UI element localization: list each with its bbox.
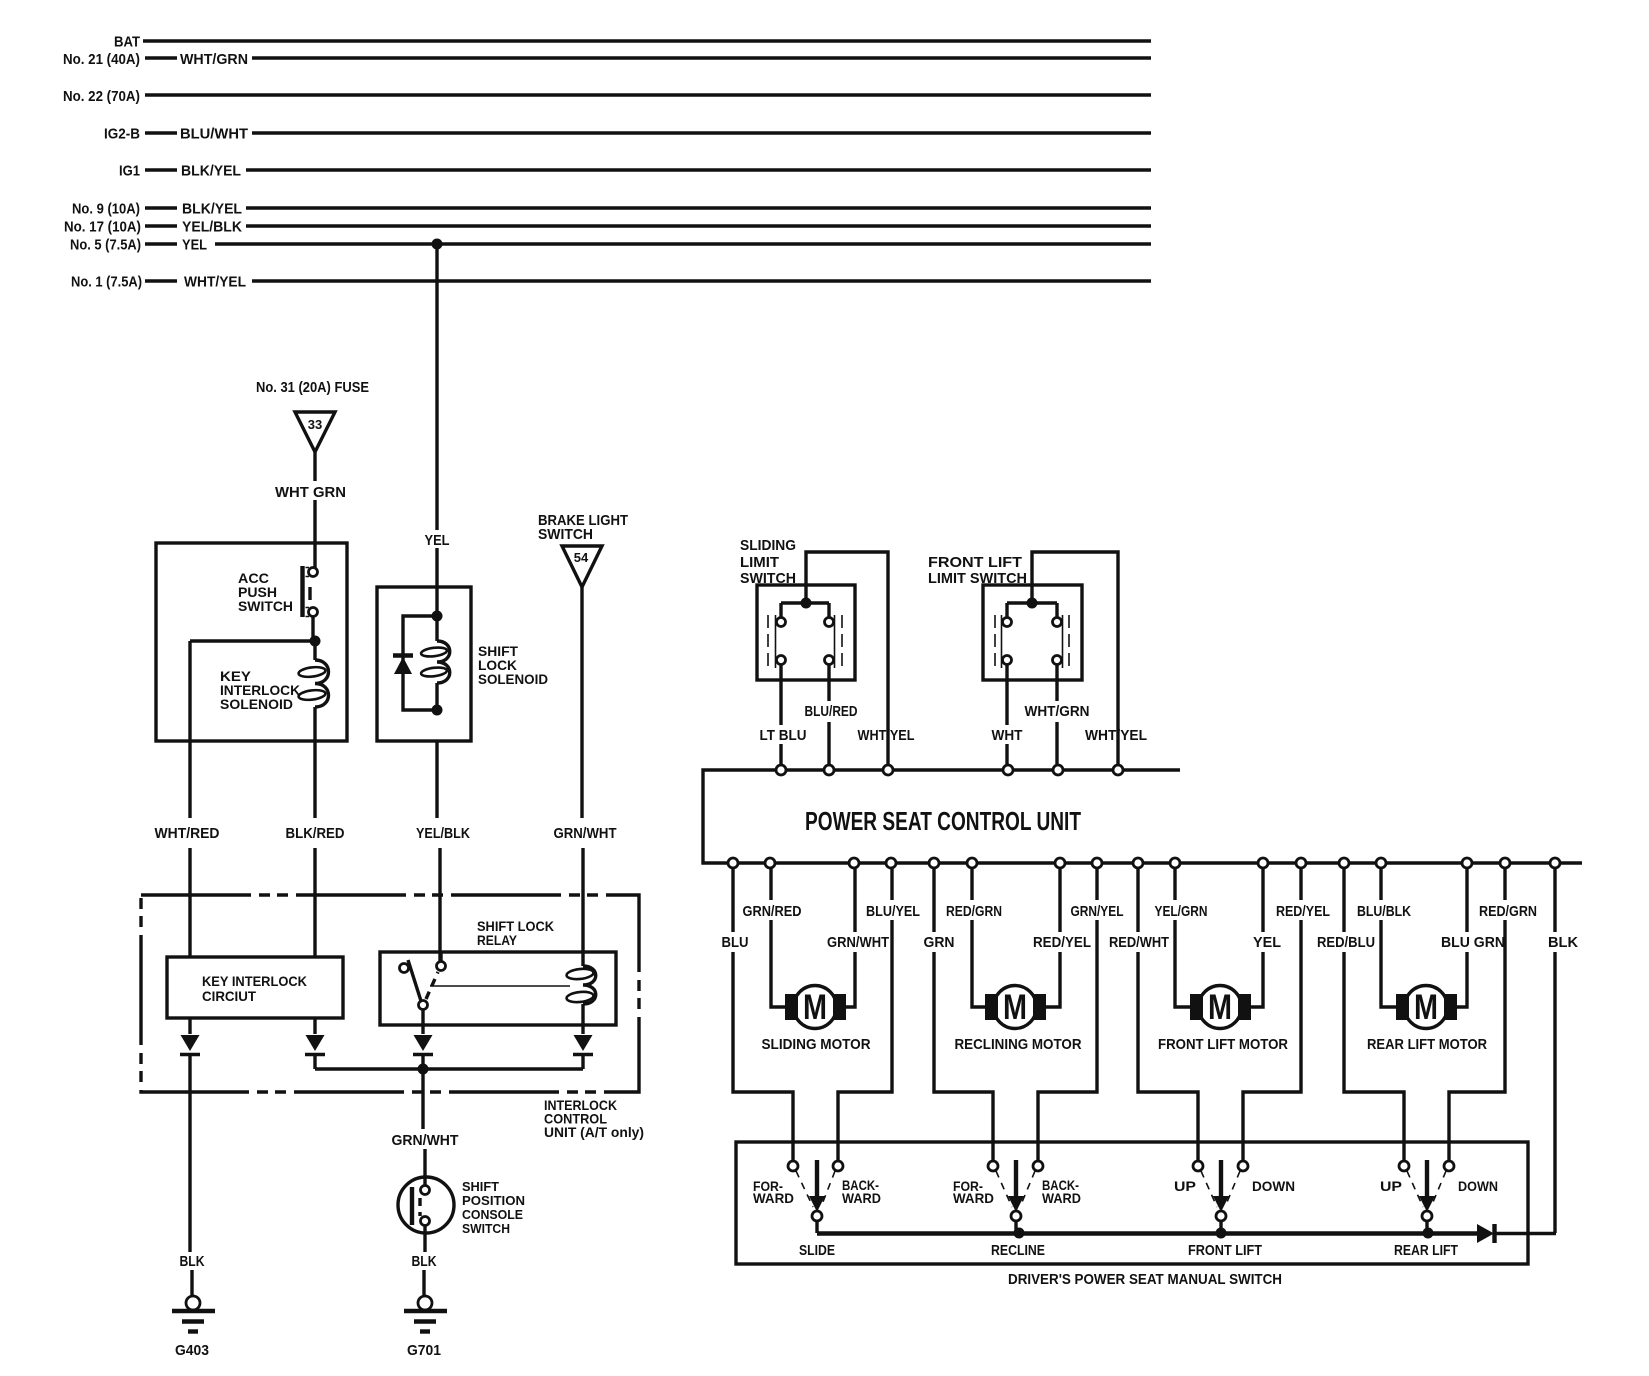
svg-text:RED/YEL: RED/YEL — [1276, 903, 1330, 920]
svg-text:SLIDING: SLIDING — [740, 537, 796, 554]
svg-text:FRONT LIFT: FRONT LIFT — [928, 554, 1022, 571]
svg-text:BLU/WHT: BLU/WHT — [180, 126, 248, 143]
svg-text:SOLENOID: SOLENOID — [478, 671, 548, 687]
svg-text:LT BLU: LT BLU — [760, 727, 807, 744]
svg-text:GRN: GRN — [924, 934, 955, 951]
svg-text:54: 54 — [574, 550, 589, 565]
svg-text:DOWN: DOWN — [1458, 1178, 1498, 1194]
svg-text:RED/YEL: RED/YEL — [1033, 934, 1091, 951]
svg-text:SWITCH: SWITCH — [538, 526, 593, 543]
svg-text:M: M — [1208, 988, 1232, 1027]
svg-text:WARD: WARD — [1042, 1190, 1081, 1206]
svg-text:No. 22 (70A): No. 22 (70A) — [63, 88, 140, 105]
svg-text:BLU/YEL: BLU/YEL — [866, 903, 920, 920]
svg-text:GRN/YEL: GRN/YEL — [1071, 903, 1124, 920]
svg-text:YEL: YEL — [1253, 934, 1281, 951]
svg-text:WHT GRN: WHT GRN — [275, 484, 346, 501]
svg-text:SLIDE: SLIDE — [799, 1242, 835, 1259]
svg-text:SLIDING MOTOR: SLIDING MOTOR — [762, 1036, 871, 1053]
svg-text:WHT/GRN: WHT/GRN — [1025, 703, 1090, 720]
svg-text:REAR LIFT: REAR LIFT — [1394, 1242, 1458, 1259]
svg-text:M: M — [1003, 988, 1027, 1027]
svg-text:DOWN: DOWN — [1252, 1178, 1295, 1194]
svg-text:SHIFT: SHIFT — [462, 1180, 499, 1194]
svg-text:WARD: WARD — [753, 1190, 794, 1206]
svg-text:WHT/YEL: WHT/YEL — [1085, 727, 1147, 744]
svg-text:IG2-B: IG2-B — [104, 126, 140, 143]
svg-text:G403: G403 — [175, 1342, 209, 1359]
svg-text:GRN/RED: GRN/RED — [743, 903, 802, 920]
svg-text:RED/GRN: RED/GRN — [946, 903, 1002, 920]
svg-text:REAR LIFT MOTOR: REAR LIFT MOTOR — [1367, 1036, 1487, 1053]
svg-text:RED/GRN: RED/GRN — [1479, 903, 1537, 920]
svg-text:WHT/YEL: WHT/YEL — [184, 274, 246, 291]
svg-text:WHT/GRN: WHT/GRN — [180, 51, 248, 68]
svg-text:No. 1 (7.5A): No. 1 (7.5A) — [71, 274, 142, 291]
svg-text:UP: UP — [1380, 1178, 1402, 1194]
svg-text:WARD: WARD — [842, 1190, 881, 1206]
svg-text:UNIT (A/T only): UNIT (A/T only) — [544, 1124, 644, 1140]
svg-text:GRN/WHT: GRN/WHT — [827, 934, 889, 951]
svg-text:UP: UP — [1174, 1178, 1196, 1194]
svg-text:YEL: YEL — [425, 532, 450, 549]
svg-text:BLU GRN: BLU GRN — [1441, 934, 1505, 951]
svg-text:BAT: BAT — [114, 34, 140, 51]
svg-text:POWER SEAT CONTROL UNIT: POWER SEAT CONTROL UNIT — [805, 806, 1081, 836]
svg-text:BLU/BLK: BLU/BLK — [1357, 903, 1411, 920]
svg-text:G701: G701 — [407, 1342, 441, 1359]
svg-text:RELAY: RELAY — [477, 932, 518, 948]
svg-text:M: M — [803, 988, 827, 1027]
svg-text:IG1: IG1 — [119, 163, 140, 180]
svg-text:YEL/BLK: YEL/BLK — [182, 219, 242, 236]
svg-text:YEL/GRN: YEL/GRN — [1155, 903, 1208, 920]
svg-text:BLK/YEL: BLK/YEL — [182, 201, 242, 218]
svg-text:RECLINING MOTOR: RECLINING MOTOR — [955, 1036, 1082, 1053]
svg-text:DRIVER'S POWER SEAT MANUAL SWI: DRIVER'S POWER SEAT MANUAL SWITCH — [1008, 1271, 1282, 1288]
svg-text:SOLENOID: SOLENOID — [220, 696, 293, 712]
svg-text:CONSOLE: CONSOLE — [462, 1208, 523, 1222]
svg-text:No. 5 (7.5A): No. 5 (7.5A) — [70, 237, 141, 254]
svg-text:LIMIT: LIMIT — [740, 554, 779, 571]
svg-text:WHT/RED: WHT/RED — [155, 825, 220, 842]
svg-text:BLK/RED: BLK/RED — [286, 825, 345, 842]
svg-text:SWITCH: SWITCH — [238, 598, 293, 614]
svg-text:M: M — [1414, 988, 1438, 1027]
svg-text:No. 17 (10A): No. 17 (10A) — [64, 219, 141, 236]
svg-text:No. 31 (20A) FUSE: No. 31 (20A) FUSE — [256, 379, 369, 396]
svg-text:BLK: BLK — [412, 1253, 437, 1270]
svg-text:KEY INTERLOCK: KEY INTERLOCK — [202, 973, 307, 989]
svg-text:RED/WHT: RED/WHT — [1109, 934, 1169, 951]
svg-text:YEL/BLK: YEL/BLK — [416, 825, 470, 842]
svg-text:SWITCH: SWITCH — [462, 1222, 510, 1236]
svg-text:WHT/YEL: WHT/YEL — [858, 727, 915, 744]
svg-text:BLU/RED: BLU/RED — [805, 703, 858, 720]
svg-text:BLK/YEL: BLK/YEL — [181, 163, 241, 180]
svg-text:BLU: BLU — [722, 934, 749, 951]
svg-text:YEL: YEL — [182, 237, 207, 254]
svg-text:POSITION: POSITION — [462, 1194, 525, 1208]
svg-text:FRONT LIFT MOTOR: FRONT LIFT MOTOR — [1158, 1036, 1288, 1053]
svg-text:No. 9 (10A): No. 9 (10A) — [72, 201, 140, 218]
svg-text:WARD: WARD — [953, 1190, 994, 1206]
svg-text:BLK: BLK — [180, 1253, 205, 1270]
svg-text:GRN/WHT: GRN/WHT — [554, 825, 617, 842]
svg-text:RECLINE: RECLINE — [991, 1242, 1045, 1259]
svg-text:33: 33 — [308, 417, 322, 432]
svg-text:FRONT LIFT: FRONT LIFT — [1188, 1242, 1262, 1259]
svg-text:GRN/WHT: GRN/WHT — [392, 1132, 459, 1149]
svg-text:RED/BLU: RED/BLU — [1317, 934, 1375, 951]
svg-text:WHT: WHT — [992, 727, 1023, 744]
svg-text:No. 21 (40A): No. 21 (40A) — [63, 51, 140, 68]
svg-text:CIRCIUT: CIRCIUT — [202, 988, 256, 1004]
svg-text:BLK: BLK — [1548, 934, 1578, 951]
